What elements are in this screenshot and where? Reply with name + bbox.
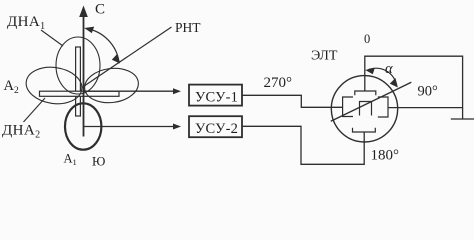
svg-text:0: 0 <box>364 32 370 46</box>
svg-text:270°: 270° <box>264 75 293 91</box>
svg-text:α: α <box>385 61 393 77</box>
svg-text:ДНА1: ДНА1 <box>7 14 46 32</box>
svg-text:ДНА2: ДНА2 <box>2 123 41 141</box>
svg-text:90°: 90° <box>418 84 439 100</box>
svg-text:УСУ-1: УСУ-1 <box>195 89 238 105</box>
svg-text:ЭЛТ: ЭЛТ <box>311 49 338 64</box>
svg-text:С: С <box>95 1 105 17</box>
svg-text:А1: А1 <box>64 152 77 168</box>
svg-text:РНТ: РНТ <box>175 20 201 35</box>
svg-text:180°: 180° <box>371 147 400 163</box>
svg-text:А2: А2 <box>4 78 19 96</box>
svg-text:Ю: Ю <box>92 154 105 169</box>
svg-text:УСУ-2: УСУ-2 <box>195 121 238 137</box>
